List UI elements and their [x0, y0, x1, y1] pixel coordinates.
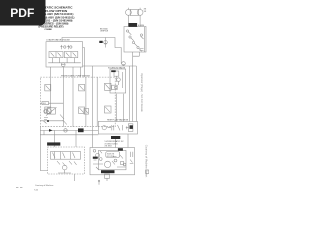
svg-text:SOLENOID VALVE: SOLENOID VALVE	[108, 67, 126, 70]
flow symbol on lower wire	[64, 129, 67, 132]
junction dot	[47, 120, 49, 122]
main cross wire	[83, 65, 137, 67]
pump relief arrows	[60, 115, 67, 125]
loader right wire down	[83, 48, 85, 78]
check valve CV1	[104, 41, 108, 45]
loader valve envelopes	[49, 52, 63, 58]
pump P1 group	[47, 108, 55, 114]
svg-text:HYDROSTATIC PUMP 6678308: HYDROSTATIC PUMP 6678308	[61, 74, 91, 77]
svg-text:XX: XX	[144, 11, 147, 13]
svg-text:XX XXX: XX XXX	[107, 156, 115, 158]
tiny gray annotation texts	[43, 9, 147, 158]
case drain vertical	[92, 66, 94, 148]
below-box component	[105, 174, 110, 178]
loader bottom component	[61, 63, 65, 67]
lower wire black marks	[78, 128, 84, 132]
hydrostatic pump dashed box	[40, 77, 115, 127]
footer courtesy text	[16, 184, 54, 192]
black mini labels	[47, 23, 137, 173]
bottom-right assembly box	[90, 148, 135, 175]
svg-text:XX XXX: XX XXX	[105, 146, 113, 148]
motor label bar	[129, 23, 138, 27]
high flow wide box	[98, 122, 137, 135]
right box stubs down	[133, 52, 140, 56]
left main vertical wire	[40, 127, 47, 171]
svg-text:Operator (Page) - Not For Resa: Operator (Page) - Not For Resale	[140, 73, 144, 112]
svg-text:PDF: PDF	[10, 6, 34, 20]
4.8 label box	[42, 102, 49, 105]
wire: loader box top to right column	[62, 38, 121, 64]
title block	[30, 6, 75, 31]
middle-right box stubs	[116, 94, 123, 122]
motor wires down	[128, 8, 140, 27]
envelope stubs	[53, 58, 75, 63]
schematic line work	[40, 8, 149, 185]
svg-text:Courtesy of Machine.Market: Courtesy of Machine.Market	[144, 145, 148, 178]
lower horizontal wires	[40, 130, 98, 134]
small marks below pump	[44, 118, 49, 124]
loader stubs to pump box	[50, 67, 80, 77]
small component on right pump vertical	[84, 109, 89, 115]
right verticals to wide box	[130, 56, 137, 121]
svg-text:Courtesy of Machine: Courtesy of Machine	[35, 184, 54, 187]
check valve CV2	[122, 62, 126, 66]
CV1 label	[99, 41, 102, 43]
right relief box	[124, 27, 146, 53]
svg-text:6 6830: 6 6830	[138, 25, 145, 27]
middle-right box mini bar	[111, 70, 116, 72]
bottom-left label bar	[47, 142, 60, 145]
svg-text:HIGH FLOW VALVE BK: HIGH FLOW VALVE BK	[107, 119, 129, 122]
relief symbols inside right box	[126, 30, 128, 32]
high flow black triangle	[130, 125, 133, 129]
pump box internal verticals	[50, 77, 97, 127]
drive motor M1	[125, 10, 131, 16]
loader internal bottom rail	[48, 62, 81, 64]
pump valve squares top row	[45, 84, 51, 91]
pump valve squares bottom row	[45, 107, 51, 114]
svg-text:COMBI: COMBI	[44, 29, 52, 31]
bottom-right mini bars	[118, 148, 123, 151]
middle-right valve box	[110, 69, 126, 93]
high flow label bar below wide box	[111, 136, 120, 139]
svg-text:7-62: 7-62	[34, 190, 39, 192]
loader valve box	[46, 42, 83, 67]
envelope arrows	[51, 53, 77, 57]
PDF badge	[0, 0, 46, 26]
svg-text:ORIFICE: ORIFICE	[100, 30, 109, 32]
loader valve pilot symbols	[61, 46, 63, 50]
bottom-left valve box	[48, 147, 85, 174]
svg-text:LOADER VALVE 6724068: LOADER VALVE 6724068	[46, 39, 70, 42]
